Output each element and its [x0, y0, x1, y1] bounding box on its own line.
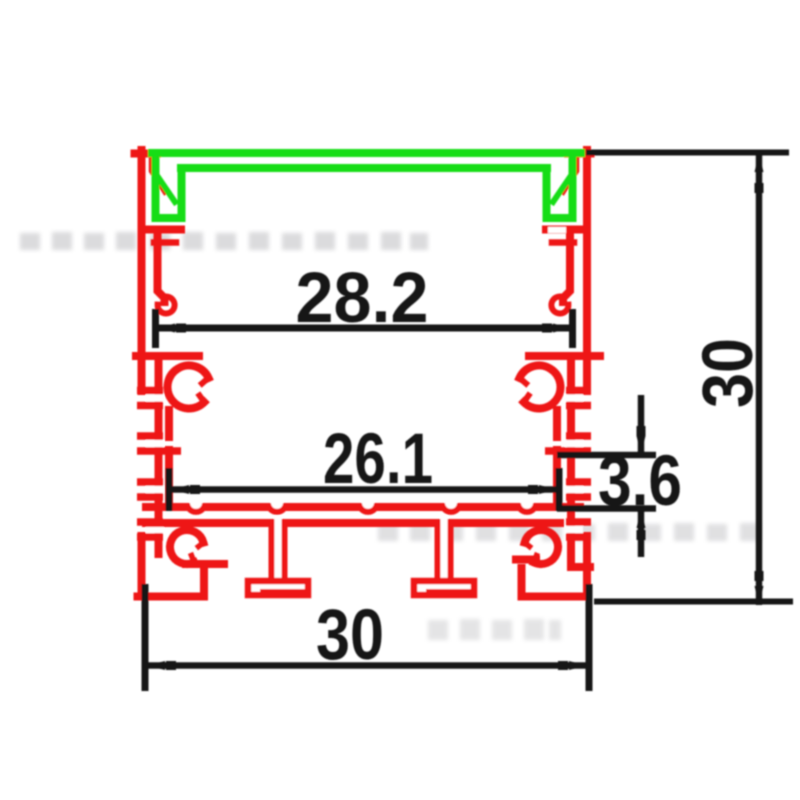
- right boss roof: [529, 352, 600, 360]
- dim 26.1 line: [171, 486, 557, 493]
- dim 30 bottom left tick: [142, 584, 149, 691]
- svg-text:30: 30: [689, 338, 768, 408]
- T-leg 2 stem interior: [441, 516, 448, 581]
- dim 30 bottom right tick: [586, 584, 593, 691]
- T-leg 1 foot: [248, 581, 308, 595]
- left foot: [138, 568, 205, 597]
- right ear step lower: [552, 239, 574, 246]
- right wall curl: [551, 296, 568, 313]
- right wall comb tabs: [545, 391, 591, 538]
- dim 30 right top ext: [586, 150, 789, 156]
- left outer wall lower: [138, 536, 146, 597]
- T-leg 2 stem: [438, 520, 451, 581]
- left wall comb tabs: [137, 391, 181, 538]
- plate top dips: [188, 497, 535, 512]
- right outer wall lower: [583, 536, 591, 597]
- svg-text:28.2: 28.2: [296, 259, 429, 338]
- dim 28.2 line: [157, 325, 571, 332]
- dim 28.2 right tick: [569, 309, 576, 348]
- plate lower line: [146, 519, 560, 527]
- lower left boss gap hooks: [192, 543, 204, 563]
- left ear top: [135, 150, 158, 158]
- watermark row 1: [20, 232, 428, 250]
- dim 28.2 left tick: [152, 309, 159, 348]
- upper right screw boss: [520, 365, 561, 408]
- left wall inner lining: [155, 360, 163, 558]
- right foot: [522, 568, 588, 597]
- left boss roof: [136, 352, 199, 360]
- left comb-to-plate connector: [165, 450, 173, 503]
- left inner wall upper: [158, 233, 165, 302]
- cover top line: [152, 149, 581, 157]
- cover right hook: [547, 157, 573, 218]
- right lining-to-wall corner: [571, 563, 590, 571]
- left outer wall: [138, 150, 146, 391]
- upper left screw boss: [168, 365, 209, 408]
- dim 3.6 bottom ext: [557, 505, 656, 512]
- right outer wall: [583, 150, 591, 391]
- T-leg 1 stem: [272, 520, 285, 581]
- left ear step upper: [145, 226, 181, 234]
- T-leg 1 stem interior: [275, 516, 282, 581]
- left wall curl: [158, 296, 175, 313]
- T-leg 2 foot: [414, 581, 474, 595]
- T-leg 2 foot inner mark: [426, 589, 471, 593]
- left ear clip: [152, 158, 166, 192]
- svg-text:26.1: 26.1: [323, 420, 433, 499]
- cover left hook: [156, 157, 182, 218]
- dim 26.1 left tick: [166, 468, 173, 511]
- svg-text:30: 30: [316, 596, 384, 675]
- right ear top: [568, 150, 591, 158]
- dim 3.6 lower arrow line: [638, 509, 645, 558]
- cover left clip diagonal: [158, 177, 175, 202]
- T-leg 1 foot inner mark: [260, 589, 305, 593]
- upper right boss gap hooks: [520, 378, 529, 402]
- right ear bar slot: [548, 227, 566, 233]
- cover right clip diagonal: [553, 177, 570, 202]
- right foot top bar: [516, 556, 536, 564]
- left wall comb slots: [146, 395, 164, 534]
- cover inner line: [181, 164, 547, 172]
- right comb-to-plate connector: [553, 450, 561, 503]
- left foot top bar: [186, 560, 224, 568]
- watermark row 3: [428, 619, 561, 640]
- dim 30 right bottom ext: [594, 599, 793, 605]
- lower left screw boss: [170, 530, 203, 564]
- arrowheads and dots: [147, 154, 764, 670]
- dim 30 bottom arrows: [147, 661, 165, 670]
- dim 3.6 top ext: [557, 452, 656, 459]
- dim 30 right line: [756, 153, 763, 605]
- right boss-to-comb connector: [553, 410, 561, 437]
- bottom plate: [146, 507, 580, 523]
- watermark row 2: [378, 523, 760, 541]
- dim 3.6 upper arrow line: [638, 395, 645, 455]
- dim 30 bottom line: [147, 662, 587, 669]
- lower right boss gap hooks: [525, 543, 537, 563]
- svg-text:3.6: 3.6: [598, 442, 682, 521]
- right ear step upper: [546, 226, 582, 234]
- right inner wall upper: [563, 233, 570, 302]
- right wall comb slots: [566, 395, 584, 534]
- dim 3.6 arrows: [637, 436, 646, 454]
- dim 30 right arrows: [755, 154, 764, 172]
- dim 26.1 arrows: [171, 485, 189, 494]
- left ear step lower: [154, 239, 176, 246]
- right ear clip: [563, 158, 577, 192]
- dim 28.2 arrows: [157, 324, 175, 333]
- upper left boss gap hooks: [200, 378, 209, 402]
- left boss-to-comb connector: [165, 410, 173, 437]
- right wall inner lining: [567, 360, 575, 566]
- lower right screw boss: [525, 530, 558, 564]
- plate top line: [146, 503, 580, 511]
- dim 26.1 right tick: [556, 468, 563, 511]
